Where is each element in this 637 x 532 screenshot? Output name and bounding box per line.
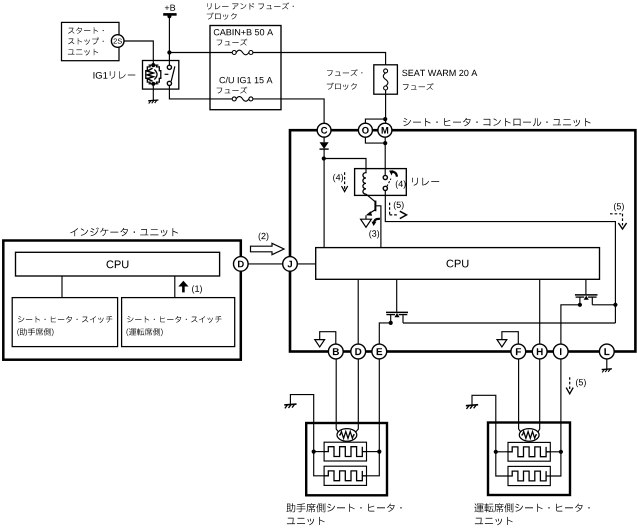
- open arrow ground (transistor): [361, 219, 372, 227]
- wire emitter to open arrow: [365, 215, 367, 219]
- relay IG1 mechanical link: [165, 73, 169, 75]
- pin M: [378, 123, 392, 137]
- CPU box (indicator unit): [16, 252, 220, 276]
- note (1) arrow: [178, 281, 188, 287]
- note (5) arrow below I: [569, 377, 571, 390]
- note (4) arrow left: [333, 174, 343, 182]
- pin F: [511, 344, 526, 359]
- node heater right (driver): [559, 450, 563, 454]
- ground heater (driver): [466, 405, 478, 409]
- wire Q3 source to pin I: [561, 305, 580, 344]
- relay IG1 switch blade: [171, 66, 175, 81]
- thermistor (driver): [519, 429, 539, 442]
- heater element 2 (passenger): [324, 466, 366, 485]
- passenger seat heater unit label: [286, 503, 401, 512]
- wire IG1 switch to C/U IG1 fuse: [169, 85, 232, 99]
- open arrow at F: [497, 340, 507, 347]
- pin B: [328, 344, 343, 359]
- relay switch blade dashed: [387, 179, 391, 187]
- wire relay switch to drain bus: [385, 190, 615, 323]
- fuse SEAT WARM 20A label: [402, 70, 477, 76]
- node diode/coil branch: [322, 156, 326, 160]
- node heater left (driver): [494, 450, 498, 454]
- transistor Q2 (left MOSFET): [386, 311, 408, 313]
- relay IG1 coil: [151, 63, 155, 67]
- pin H: [532, 344, 547, 359]
- wire IG1 coil to ground: [152, 84, 154, 100]
- relay label: [412, 178, 439, 186]
- heater element 2 (driver): [508, 466, 550, 485]
- wire branch to relay coil: [324, 159, 366, 172]
- wire +B supply drop: [168, 15, 170, 66]
- node fuse/O junction top: [383, 117, 387, 121]
- relay coil (control unit): [363, 171, 366, 194]
- seat heater switch box (driver): [122, 298, 235, 347]
- fuse CABIN+B 50A: [232, 51, 236, 55]
- relay switch contacts (control unit): [383, 175, 387, 179]
- node Q2 source: [389, 321, 393, 325]
- fuse C/U IG1 15A label: [220, 77, 273, 84]
- pin D (control unit): [351, 344, 366, 359]
- note (5) arrow right side: [614, 203, 624, 211]
- indicator unit box: [3, 241, 241, 360]
- relay and fuse block box: [210, 26, 281, 110]
- pin D (indicator unit): [234, 257, 249, 272]
- wire 2S to IG1 relay coil: [124, 41, 153, 65]
- transistor Q3 (right MOSFET): [575, 294, 598, 296]
- fuse SEAT WARM 20A: [384, 69, 388, 73]
- wire base to CPU: [376, 206, 381, 248]
- node heater right (passenger): [377, 450, 381, 454]
- wires heater nodes (passenger): [314, 451, 324, 453]
- wire pin I to heater node (driver): [560, 359, 562, 452]
- fuse C/U IG1 15A: [232, 97, 236, 101]
- note (5) arrow at relay: [394, 201, 404, 209]
- seat heater unit box (passenger): [306, 423, 387, 495]
- wire CPU to pin D: [357, 279, 359, 344]
- wire L to ground: [606, 359, 608, 369]
- pin O: [358, 123, 372, 137]
- wire CPU to right switch: [174, 276, 176, 298]
- fuse block (SEAT WARM) label: [327, 69, 363, 76]
- CPU box (control unit): [316, 248, 600, 280]
- wire CPU to Q3 gate: [585, 279, 587, 294]
- wire CPU to pin H: [539, 279, 541, 344]
- pin J: [283, 257, 298, 272]
- heater element 1 (passenger): [324, 442, 366, 461]
- fuse CABIN+B 50A label: [214, 29, 273, 35]
- wire CPU to left switch: [61, 276, 63, 298]
- ground IG1 relay: [148, 100, 158, 104]
- driver seat heater unit label: [474, 503, 589, 512]
- wire D to J: [248, 263, 283, 265]
- ground heater (passenger): [284, 404, 296, 408]
- node +B junction to CABIN fuse: [167, 50, 171, 54]
- pin E: [372, 344, 387, 359]
- wire C/U IG1 fuse to pin C: [253, 99, 324, 124]
- seat heater unit box (driver): [488, 423, 570, 496]
- seat heater control unit label: [403, 118, 591, 127]
- transistor Q1 collector: [366, 194, 375, 202]
- node drain bus junction: [613, 303, 617, 307]
- node heater left (passenger): [312, 450, 316, 454]
- wire F hollow arrow loop: [502, 332, 518, 344]
- wire pin E to heater node (passenger): [378, 359, 380, 452]
- wire Q3 drain to bus: [592, 304, 615, 306]
- transistor Q1 base bar: [374, 201, 376, 212]
- pin C: [317, 123, 331, 137]
- wire O parallel bracket: [365, 119, 385, 123]
- open arrow at B: [315, 340, 325, 347]
- wires heater nodes (driver): [496, 451, 508, 453]
- transistor Q1 emitter: [367, 210, 375, 215]
- +B terminal: [163, 13, 176, 16]
- note (2) block arrow: [259, 233, 269, 241]
- wire Q2 source to pin E: [379, 323, 390, 344]
- pin L: [599, 344, 614, 359]
- heater element 1 (driver): [508, 442, 550, 461]
- wire CPU to Q2 gate: [396, 279, 398, 311]
- seat heater control unit box: [290, 130, 635, 351]
- pin I: [553, 344, 568, 359]
- pin 2S start-stop unit: [111, 35, 124, 48]
- wire J to CPU: [297, 263, 315, 265]
- wire heater ground (passenger): [290, 395, 313, 452]
- indicator unit label: [70, 227, 178, 236]
- wire SEAT WARM fuse to pin M: [385, 90, 387, 123]
- ground pin L: [602, 369, 612, 373]
- wire CABIN+B fuse to SEAT WARM fuse: [253, 53, 386, 65]
- wire pin F to thermistor (driver): [519, 359, 521, 432]
- relay box (control unit): [355, 169, 407, 196]
- wire pin H to thermistor (driver): [538, 359, 540, 432]
- wire pin B to thermistor (passenger): [336, 359, 338, 432]
- wire B hollow arrow loop: [320, 332, 336, 344]
- note (4) label right: [396, 180, 406, 188]
- relay and fuse block label: [207, 3, 294, 10]
- relay IG1 box: [143, 61, 179, 90]
- relay actuation curved arrow: [392, 172, 397, 177]
- seat heater switch box (passenger): [12, 298, 117, 347]
- wire pin D to thermistor (passenger): [356, 359, 358, 432]
- wire drain bus: [403, 322, 615, 324]
- wire diode to CPU: [323, 149, 325, 248]
- start-stop unit box: [62, 22, 120, 60]
- diode D1: [320, 142, 329, 149]
- relay IG1 switch contacts: [167, 65, 171, 69]
- thermistor (passenger): [337, 429, 357, 442]
- node Q3 source: [578, 303, 582, 307]
- IG1 relay label: [94, 72, 108, 79]
- wire M to relay switch: [384, 137, 386, 175]
- node O/M junction bottom: [383, 141, 387, 145]
- wire C to diode: [323, 137, 325, 142]
- wire +B to CABIN+B fuse: [169, 52, 232, 54]
- fuse block box (SEAT WARM): [374, 65, 398, 94]
- note (3) curved arrow: [374, 219, 380, 222]
- wire heater ground (driver): [472, 395, 496, 452]
